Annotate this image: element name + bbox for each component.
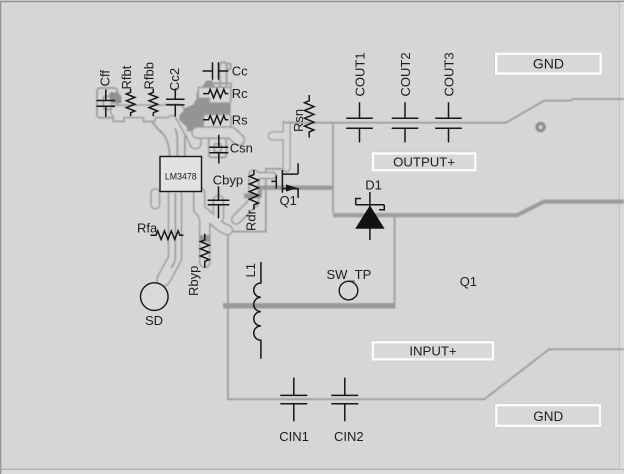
wire separator in SD bundle [171, 193, 175, 268]
svg-text:Rdr: Rdr [243, 209, 258, 231]
node Rc light pad [198, 87, 231, 103]
capacitor CIN2 [331, 378, 363, 444]
diode D1 [355, 178, 384, 240]
capacitor Cbyp [208, 172, 243, 218]
op-amp U1 / IC LM3478 [160, 157, 202, 192]
via [535, 122, 545, 132]
svg-text:Rfbb: Rfbb [142, 62, 157, 89]
svg-text:Q1: Q1 [460, 274, 477, 289]
wire band below Rs redrawn over blob [198, 133, 239, 140]
inductor L1 [243, 262, 261, 359]
resistor Rfa [137, 220, 184, 239]
traces: outer strokes [117, 110, 287, 280]
wire output pour left edge [332, 123, 334, 213]
svg-text:Cc2: Cc2 [167, 68, 182, 91]
node tabs under Cff band [113, 112, 124, 121]
label boxes [372, 53, 602, 427]
resistor Rc [203, 86, 248, 101]
svg-text:CIN2: CIN2 [334, 429, 364, 444]
wire LM3478 pin fan lines [160, 131, 170, 157]
capacitor COUT2 [392, 52, 419, 142]
svg-text:Csn: Csn [230, 140, 253, 155]
capacitor Cc [203, 62, 249, 80]
svg-text:Rfa: Rfa [137, 220, 158, 235]
svg-text:Rs: Rs [232, 112, 248, 127]
svg-text:SD: SD [145, 313, 163, 328]
resistor Rdr [243, 170, 258, 231]
capacitor Cc2 [166, 68, 185, 117]
node dark pad at Rbyp top [200, 235, 211, 242]
svg-text:Cbyp: Cbyp [213, 172, 243, 187]
node dark pad at Cff [110, 93, 122, 104]
svg-text:GND: GND [533, 55, 564, 71]
svg-text:COUT2: COUT2 [398, 52, 413, 96]
svg-text:COUT1: COUT1 [352, 52, 367, 96]
capacitor COUT1 [346, 52, 373, 142]
resistor Rs [203, 112, 248, 127]
wire SW link bar under Q1 [257, 185, 334, 189]
wire SW/input pour outline [228, 169, 624, 399]
svg-text:GND: GND [533, 409, 563, 424]
wire SW pour right edge [394, 216, 396, 303]
svg-text:Cc: Cc [232, 64, 248, 79]
node INPUT+ label [372, 341, 495, 360]
transistor Q1 [271, 163, 298, 208]
svg-text:INPUT+: INPUT+ [409, 344, 457, 359]
wire Cff pad ring [97, 88, 117, 118]
svg-text:SW_TP: SW_TP [327, 267, 372, 282]
resistor Rfbb [142, 62, 158, 116]
svg-text:Cff: Cff [98, 70, 113, 87]
resistor Rbyp [186, 234, 209, 296]
node GND label top [495, 53, 602, 75]
svg-text:COUT3: COUT3 [441, 52, 456, 96]
capacitor COUT3 [435, 52, 462, 142]
node Rs light pad [204, 114, 231, 129]
svg-text:Rc: Rc [232, 86, 248, 101]
resistor Rsn [291, 95, 314, 138]
wire output pour bottom edge bar [333, 202, 624, 216]
capacitor Csn [209, 135, 253, 164]
svg-text:D1: D1 [365, 178, 382, 193]
traces: inner strokes [117, 110, 292, 280]
svg-text:Rfbt: Rfbt [119, 65, 134, 89]
node GND label bottom [495, 404, 601, 427]
wire pour outline top-right GND/OUTPUT boundary [287, 99, 624, 123]
wire Cc pad [220, 62, 227, 88]
resistor Rfbt [119, 65, 135, 116]
capacitor Cff [97, 70, 116, 117]
svg-text:LM3478: LM3478 [165, 172, 197, 182]
svg-text:L1: L1 [243, 263, 258, 277]
node dark copper blob center [179, 81, 230, 136]
node SD test point [141, 283, 169, 328]
wire SW pour bottom bar [223, 303, 396, 308]
svg-text:OUTPUT+: OUTPUT+ [393, 155, 455, 170]
node dark pad at Rdr bottom [244, 193, 262, 198]
svg-text:CIN1: CIN1 [279, 429, 309, 444]
capacitor CIN1 [279, 378, 309, 444]
svg-text:Q1: Q1 [280, 193, 297, 208]
svg-text:Rbyp: Rbyp [186, 266, 201, 296]
node OUTPUT+ label [372, 152, 477, 171]
node SW_TP test point [327, 267, 372, 300]
svg-text:Rsn: Rsn [291, 109, 306, 132]
wire Csn pad ring [209, 138, 227, 157]
